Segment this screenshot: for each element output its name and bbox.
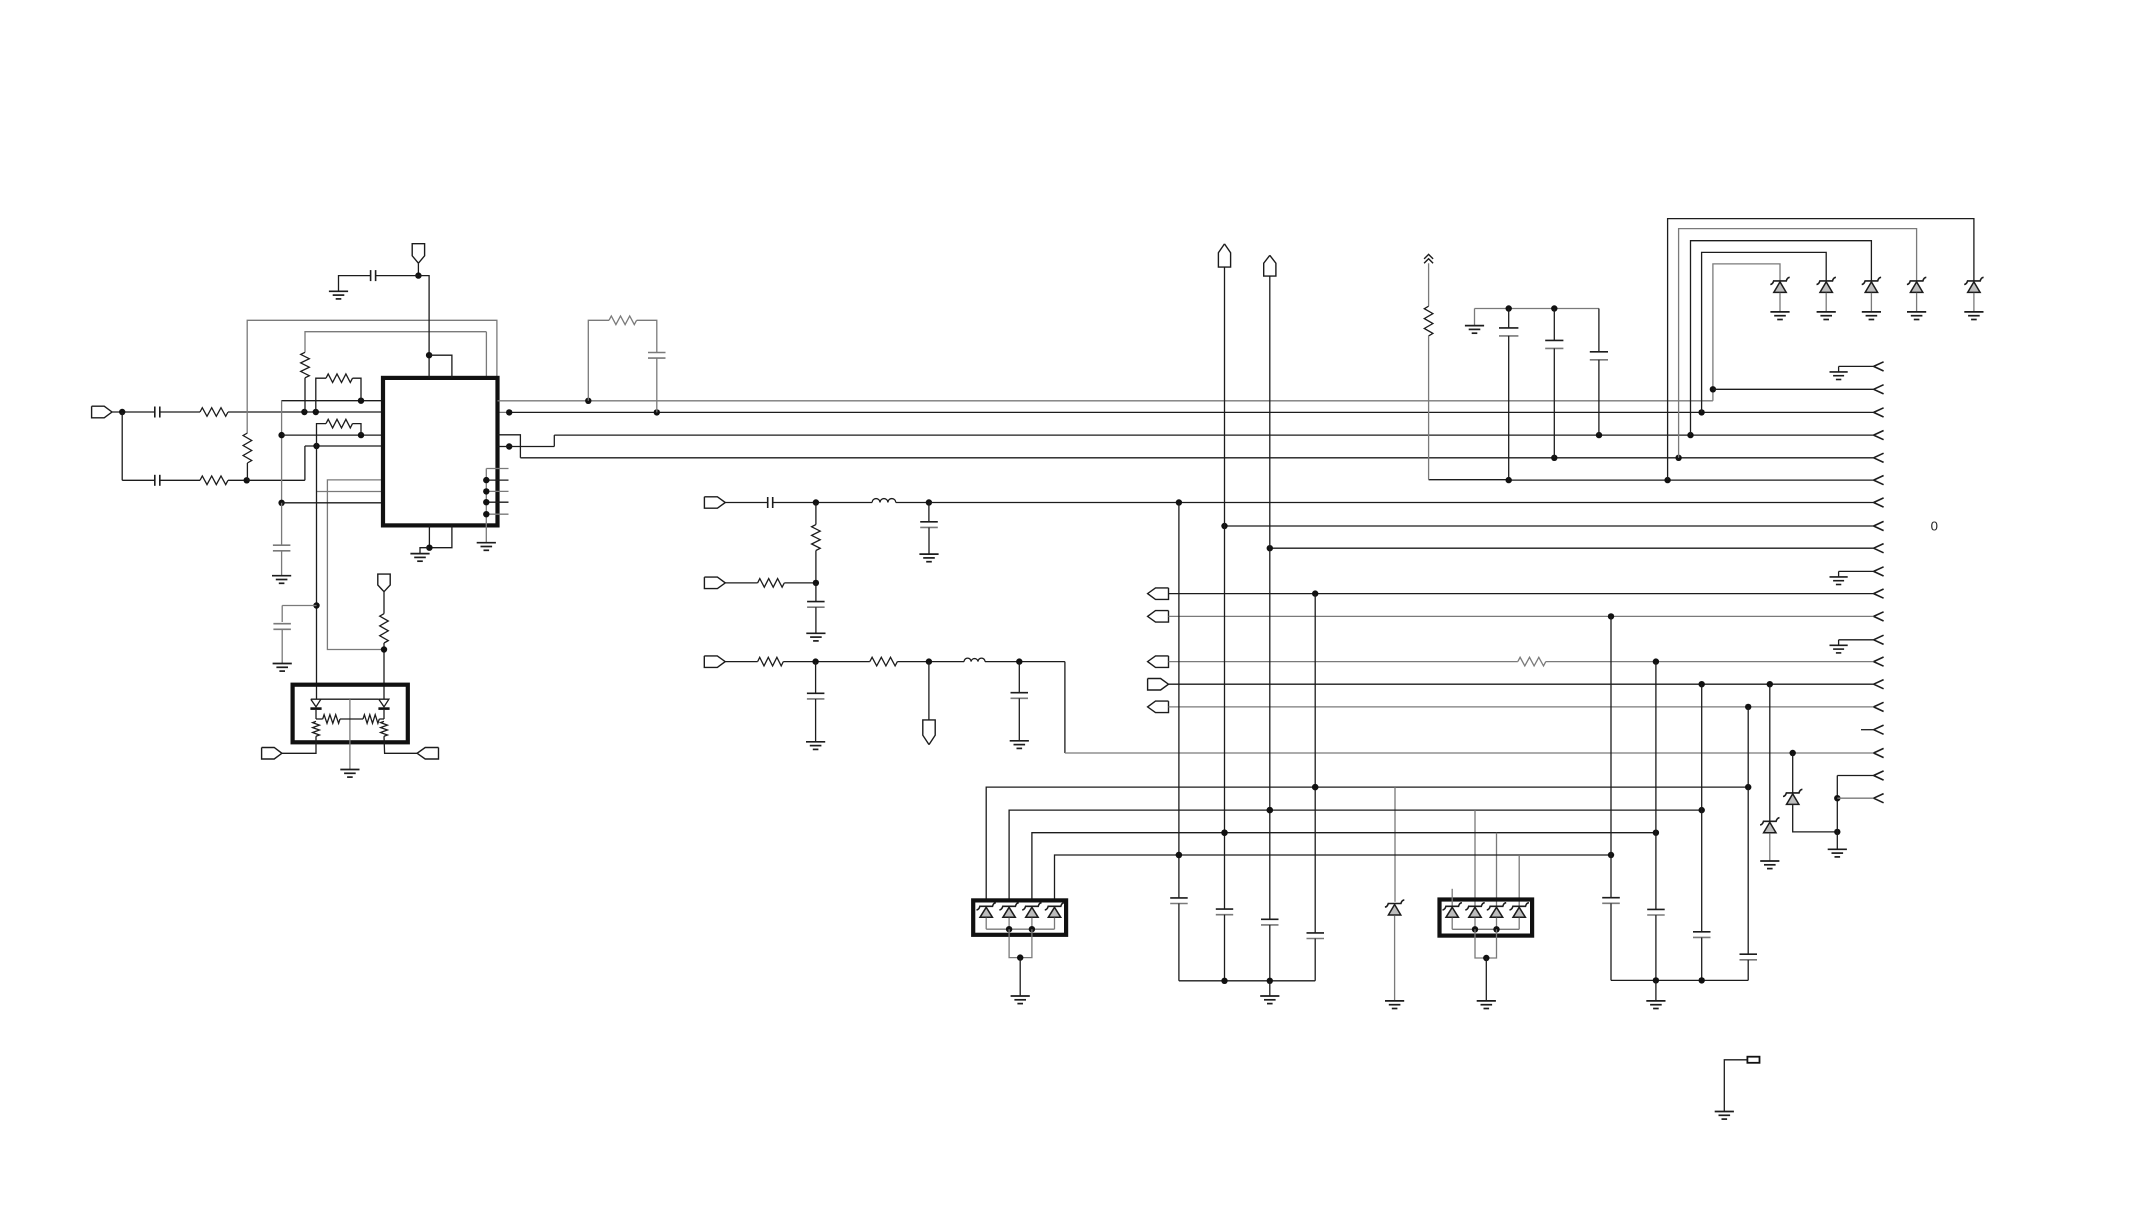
wire bbox=[929, 502, 1874, 504]
ground bbox=[329, 291, 348, 299]
junction dot bbox=[1312, 784, 1318, 790]
wire row810 bbox=[1009, 810, 1702, 900]
ground bbox=[477, 543, 496, 551]
wire bbox=[1169, 593, 1874, 595]
ground bbox=[273, 664, 292, 672]
wire bbox=[247, 320, 497, 433]
resistor R9 bbox=[1424, 306, 1433, 480]
off-page arrow bbox=[1874, 431, 1884, 440]
wire L1 bbox=[498, 400, 1713, 402]
wire bbox=[247, 446, 383, 480]
junction dot bbox=[426, 352, 432, 358]
wire bbox=[316, 446, 318, 699]
wire bbox=[1973, 293, 1975, 312]
wire bbox=[349, 699, 351, 769]
wire bbox=[1474, 309, 1476, 326]
junction dot bbox=[1687, 432, 1693, 438]
junction dot bbox=[381, 646, 387, 652]
capacitor C10 bbox=[768, 497, 872, 508]
ground bbox=[919, 554, 938, 562]
connector J4 (chevron) bbox=[1424, 254, 1433, 263]
junction dot bbox=[1653, 658, 1659, 664]
pin stub bbox=[486, 490, 508, 492]
junction dot bbox=[313, 443, 319, 449]
resistor R8 bbox=[588, 316, 657, 401]
pin stub bbox=[486, 513, 508, 515]
zener diode D5 bbox=[1964, 277, 1983, 292]
junction dot bbox=[926, 658, 932, 664]
wire bbox=[1496, 833, 1498, 906]
wire bbox=[1836, 776, 1838, 850]
junction dot bbox=[1176, 499, 1182, 505]
junction dot bbox=[1017, 954, 1023, 960]
capacitor C4 bbox=[273, 606, 291, 664]
off-page arrow bbox=[1874, 589, 1884, 598]
wire bbox=[317, 491, 384, 493]
wire bus bbox=[986, 928, 1054, 930]
connector J13 bbox=[1148, 701, 1169, 713]
wire bbox=[1019, 958, 1021, 996]
wire bbox=[1825, 293, 1827, 312]
connector J3 (VDD) bbox=[412, 244, 424, 264]
junction dot bbox=[1675, 455, 1681, 461]
off-page arrow bbox=[1874, 612, 1884, 621]
junction dot bbox=[1653, 830, 1659, 836]
wire bbox=[1314, 594, 1316, 933]
wire bbox=[486, 332, 509, 413]
capacitor C18 bbox=[1307, 933, 1325, 981]
junction dot bbox=[1551, 305, 1557, 311]
wire bbox=[315, 710, 317, 719]
junction dot bbox=[1745, 784, 1751, 790]
wire bbox=[321, 698, 379, 700]
connector J11 bbox=[1148, 656, 1169, 668]
junction dot bbox=[1312, 590, 1318, 596]
junction dot bbox=[1699, 681, 1705, 687]
zener diode D6_3 bbox=[1022, 903, 1041, 918]
connector J17 bbox=[417, 748, 438, 760]
junction dot bbox=[1472, 926, 1478, 932]
junction dot bbox=[483, 488, 489, 494]
wire bbox=[725, 502, 767, 504]
ground bbox=[1817, 312, 1836, 320]
junction dot bbox=[1506, 305, 1512, 311]
off-page arrow bbox=[1874, 771, 1884, 780]
transistor Q1a bbox=[310, 699, 321, 710]
zener diode D8_2 bbox=[1465, 903, 1484, 918]
connector J5 bbox=[704, 497, 725, 508]
ground bbox=[1646, 1001, 1665, 1009]
zener diode D7 bbox=[1385, 900, 1404, 915]
zener diode D4 bbox=[1907, 277, 1926, 292]
junction dot bbox=[313, 602, 319, 608]
wire bbox=[417, 263, 419, 275]
junction dot bbox=[1596, 432, 1602, 438]
junction dot bbox=[1267, 545, 1273, 551]
ground bbox=[1760, 861, 1779, 869]
wire bbox=[1394, 787, 1396, 902]
wire row833 bbox=[1032, 833, 1656, 901]
zener diode D10 bbox=[1783, 789, 1802, 804]
junction dot bbox=[1029, 926, 1035, 932]
wire bbox=[725, 582, 757, 584]
wire bbox=[1837, 775, 1873, 777]
wire bbox=[1475, 929, 1497, 958]
off-page arrow bbox=[1874, 408, 1884, 417]
wire bus bbox=[1611, 979, 1748, 981]
zener diode D6_4 bbox=[1045, 903, 1064, 918]
ground bbox=[806, 742, 825, 750]
wire bbox=[1837, 797, 1873, 799]
wire bbox=[1269, 276, 1271, 919]
connector J1 (left input) bbox=[92, 406, 112, 418]
capacitor C1 bbox=[155, 407, 200, 418]
junction dot bbox=[926, 499, 932, 505]
wire bbox=[1475, 308, 1599, 310]
junction dot bbox=[483, 499, 489, 505]
resistor R6 bbox=[317, 419, 362, 446]
junction dot bbox=[1698, 409, 1704, 415]
wire bbox=[1269, 981, 1271, 996]
junction dot bbox=[1312, 784, 1318, 790]
wire bbox=[282, 502, 383, 504]
capacitor C2 bbox=[155, 475, 200, 486]
resistor R18 bbox=[381, 721, 418, 753]
junction dot bbox=[813, 580, 819, 586]
junction dot bbox=[1267, 978, 1273, 984]
off-page arrow bbox=[1874, 521, 1884, 530]
resistor R13 bbox=[870, 657, 964, 666]
wire bbox=[1169, 615, 1874, 617]
junction dot bbox=[812, 658, 818, 664]
junction dot bbox=[1790, 750, 1796, 756]
wire bbox=[486, 468, 508, 470]
wire row753 bbox=[1065, 662, 1874, 753]
wire bbox=[1870, 293, 1872, 312]
wire bbox=[1769, 684, 1771, 821]
junction dot bbox=[1608, 613, 1614, 619]
wire bbox=[1474, 810, 1476, 905]
wire bbox=[1518, 855, 1520, 906]
resistor R10 bbox=[812, 503, 821, 583]
wire bbox=[1169, 661, 1518, 663]
junction dot bbox=[415, 272, 421, 278]
connector J8 bbox=[923, 720, 935, 745]
resistor R5 bbox=[316, 374, 361, 412]
connector J7 bbox=[704, 656, 725, 668]
wire bbox=[1702, 252, 1827, 412]
capacitor C3 bbox=[273, 503, 291, 576]
off-page arrow bbox=[1874, 794, 1884, 803]
ground + off-page arrow bbox=[1830, 362, 1884, 380]
capacitor C21 bbox=[1693, 932, 1711, 981]
junction dot bbox=[1834, 829, 1840, 835]
pin stub bbox=[486, 479, 508, 481]
junction dot bbox=[506, 443, 512, 449]
off-page arrow bbox=[1874, 702, 1884, 711]
wire bbox=[1769, 833, 1771, 861]
wire L3 bbox=[509, 435, 1873, 446]
ground bbox=[1715, 1112, 1734, 1120]
connector J10 bbox=[1148, 611, 1169, 623]
inductor LL1 bbox=[872, 499, 929, 503]
capacitor C22 bbox=[1740, 954, 1758, 980]
zener diode D2 bbox=[1817, 277, 1836, 292]
ground bbox=[410, 554, 429, 562]
wire L4 bbox=[498, 435, 1874, 458]
wire bbox=[498, 446, 510, 448]
capacitor C19 bbox=[1602, 898, 1620, 981]
off-page arrow bbox=[1874, 476, 1884, 485]
label 0 bbox=[1931, 519, 1938, 534]
wire bbox=[418, 276, 429, 378]
resistor R4 bbox=[301, 352, 310, 412]
resistor R7 bbox=[380, 614, 389, 700]
off-page arrow bbox=[1874, 453, 1884, 462]
junction dot bbox=[1551, 455, 1557, 461]
ground + off-page arrow bbox=[1830, 567, 1884, 585]
connector J14 bbox=[1218, 244, 1230, 267]
junction dot bbox=[1506, 477, 1512, 483]
connector J16 bbox=[262, 748, 282, 760]
connector J15 bbox=[1264, 255, 1276, 276]
wire bbox=[1518, 918, 1520, 930]
junction dot bbox=[585, 398, 591, 404]
wire bbox=[428, 525, 430, 547]
wire bbox=[1668, 219, 1974, 481]
wire bbox=[1691, 241, 1872, 435]
resistor R2 bbox=[200, 476, 247, 485]
junction dot bbox=[1006, 926, 1012, 932]
off-page arrow bbox=[1874, 498, 1884, 507]
capacitor C15 bbox=[1170, 898, 1188, 981]
junction dot bbox=[301, 409, 307, 415]
zener diode D8_1 bbox=[1443, 903, 1462, 918]
junction dot bbox=[313, 409, 319, 415]
junction dot bbox=[1016, 658, 1022, 664]
ground bbox=[806, 633, 825, 641]
wire bbox=[429, 525, 452, 547]
connector J12 bbox=[1148, 679, 1169, 691]
ground bbox=[1862, 312, 1881, 320]
wire bbox=[1713, 264, 1780, 401]
wire bbox=[383, 592, 385, 614]
junction dot bbox=[244, 477, 250, 483]
resistor R3 bbox=[243, 433, 252, 480]
capacitor C20 bbox=[1647, 909, 1665, 980]
ground bbox=[1828, 849, 1847, 857]
capacitor C17 bbox=[1261, 919, 1279, 981]
junction dot bbox=[1745, 704, 1751, 710]
wire bbox=[112, 411, 155, 413]
junction dot bbox=[1267, 807, 1273, 813]
wire bbox=[1679, 229, 1917, 458]
junction dot bbox=[1221, 830, 1227, 836]
wire bbox=[985, 918, 987, 930]
connector J9 bbox=[1148, 588, 1169, 600]
capacitor C9 bbox=[1590, 309, 1608, 436]
wire bbox=[1916, 293, 1918, 312]
junction dot bbox=[1608, 852, 1614, 858]
zener diode D3 bbox=[1862, 277, 1881, 292]
wire bbox=[420, 548, 429, 554]
wire bbox=[725, 661, 757, 663]
off-page arrow bbox=[1874, 385, 1884, 394]
ground bbox=[1260, 996, 1279, 1004]
wire bbox=[1224, 267, 1226, 909]
wire bbox=[1655, 662, 1657, 910]
wire bbox=[1054, 918, 1056, 930]
junction dot bbox=[1176, 852, 1182, 858]
wire bbox=[282, 434, 383, 436]
junction dot bbox=[1664, 477, 1670, 483]
junction dot bbox=[1267, 807, 1273, 813]
ground bbox=[1010, 741, 1029, 749]
junction dot bbox=[483, 511, 489, 517]
wire bbox=[429, 355, 452, 378]
junction dot bbox=[1653, 977, 1659, 983]
wire bbox=[1793, 805, 1838, 832]
ground + off-page arrow bbox=[1830, 635, 1884, 653]
capacitor C11 bbox=[920, 503, 938, 555]
wire bbox=[1474, 918, 1476, 930]
ground bbox=[1385, 1001, 1404, 1009]
connector J2 (bias) bbox=[378, 574, 390, 592]
wire bbox=[305, 332, 486, 353]
junction dot bbox=[1176, 852, 1182, 858]
wire bbox=[281, 401, 283, 503]
ground bbox=[1465, 326, 1484, 334]
wire bbox=[1610, 616, 1612, 897]
wire bbox=[1655, 980, 1657, 1001]
ground bbox=[340, 770, 359, 778]
wire bus bbox=[1179, 980, 1315, 982]
junction dot bbox=[1834, 795, 1840, 801]
junction dot bbox=[1699, 807, 1705, 813]
wire bbox=[1394, 915, 1396, 1001]
capacitor C12 bbox=[807, 583, 825, 633]
zener diode D6_1 bbox=[977, 903, 996, 918]
diode array DA2 bbox=[1440, 900, 1533, 936]
junction dot bbox=[1221, 523, 1227, 529]
resistor R17 bbox=[282, 721, 320, 753]
pin stub bbox=[486, 501, 508, 503]
wire L5 bbox=[1429, 479, 1874, 481]
wire L2 bbox=[509, 411, 1873, 413]
wire bbox=[1496, 918, 1498, 930]
junction dot bbox=[426, 545, 432, 551]
wire bbox=[1008, 918, 1010, 930]
resistor R12 bbox=[758, 657, 870, 666]
ground bbox=[1770, 312, 1789, 320]
svg-text:0: 0 bbox=[1931, 519, 1938, 534]
wire bbox=[485, 469, 487, 543]
resistor R11 bbox=[758, 579, 816, 588]
ground bbox=[1964, 312, 1983, 320]
junction dot bbox=[1710, 386, 1716, 392]
off-page arrow bbox=[1874, 544, 1884, 553]
wire bbox=[1451, 918, 1453, 930]
connector J6 bbox=[704, 577, 725, 589]
wire bbox=[1792, 753, 1794, 793]
junction dot bbox=[483, 477, 489, 483]
terminator bbox=[1747, 1057, 1759, 1063]
junction dot bbox=[1493, 926, 1499, 932]
wire bbox=[1779, 293, 1781, 312]
wire row787 bbox=[986, 787, 1748, 900]
transistor Q1b bbox=[378, 699, 389, 710]
ground bbox=[1477, 1001, 1496, 1009]
junction dot bbox=[1483, 955, 1489, 961]
junction dot bbox=[278, 500, 284, 506]
junction dot bbox=[358, 398, 364, 404]
zener diode D8_3 bbox=[1487, 903, 1506, 918]
wire (nc stub) bbox=[1451, 889, 1453, 906]
junction dot bbox=[1767, 681, 1773, 687]
wire bbox=[1270, 547, 1874, 549]
wire bbox=[928, 662, 930, 720]
capacitor C8 bbox=[1545, 309, 1563, 458]
junction dot bbox=[506, 409, 512, 415]
junction dot bbox=[654, 409, 660, 415]
zener diode D1 bbox=[1770, 277, 1789, 292]
wire bbox=[1225, 525, 1874, 527]
wire bbox=[1428, 263, 1430, 306]
junction dot bbox=[119, 409, 125, 415]
capacitor C16 bbox=[1216, 909, 1233, 981]
resistor R15 bbox=[316, 715, 363, 724]
wire row855 bbox=[1055, 855, 1612, 900]
resistor R16 bbox=[363, 715, 384, 724]
zener diode D6_2 bbox=[999, 903, 1018, 918]
ground bbox=[1907, 312, 1926, 320]
zener diode D9 bbox=[1760, 818, 1779, 833]
wire bbox=[121, 412, 123, 480]
wire bbox=[1747, 707, 1749, 954]
ground bbox=[1011, 996, 1030, 1004]
capacitor C6 bbox=[648, 353, 666, 413]
junction dot bbox=[1699, 977, 1705, 983]
junction dot bbox=[278, 432, 284, 438]
wire bbox=[1169, 683, 1874, 685]
wire bbox=[383, 710, 385, 719]
resistor R1 bbox=[200, 408, 383, 417]
wire bbox=[1178, 503, 1180, 898]
capacitor C14 bbox=[1011, 662, 1029, 741]
wire bbox=[1169, 706, 1874, 708]
junction dot bbox=[813, 499, 819, 505]
wire bbox=[1724, 1060, 1747, 1112]
wire bbox=[1031, 918, 1033, 930]
ground bbox=[272, 576, 291, 584]
off-page arrow bbox=[1874, 657, 1884, 666]
off-page arrow bbox=[1874, 680, 1884, 689]
wire bbox=[1713, 388, 1874, 390]
wire bus bbox=[1452, 928, 1519, 930]
wire bbox=[1701, 684, 1703, 932]
zener diode D8_4 bbox=[1510, 903, 1529, 918]
wire bbox=[1009, 929, 1032, 957]
wire bbox=[282, 400, 383, 402]
capacitor C5 bbox=[339, 270, 419, 291]
wire bbox=[122, 479, 155, 481]
IC U1 bbox=[383, 378, 498, 526]
junction dot bbox=[358, 432, 364, 438]
junction dot bbox=[1221, 978, 1227, 984]
wire bbox=[282, 605, 316, 607]
diode array DA1 bbox=[973, 900, 1066, 934]
wire bbox=[327, 480, 384, 650]
